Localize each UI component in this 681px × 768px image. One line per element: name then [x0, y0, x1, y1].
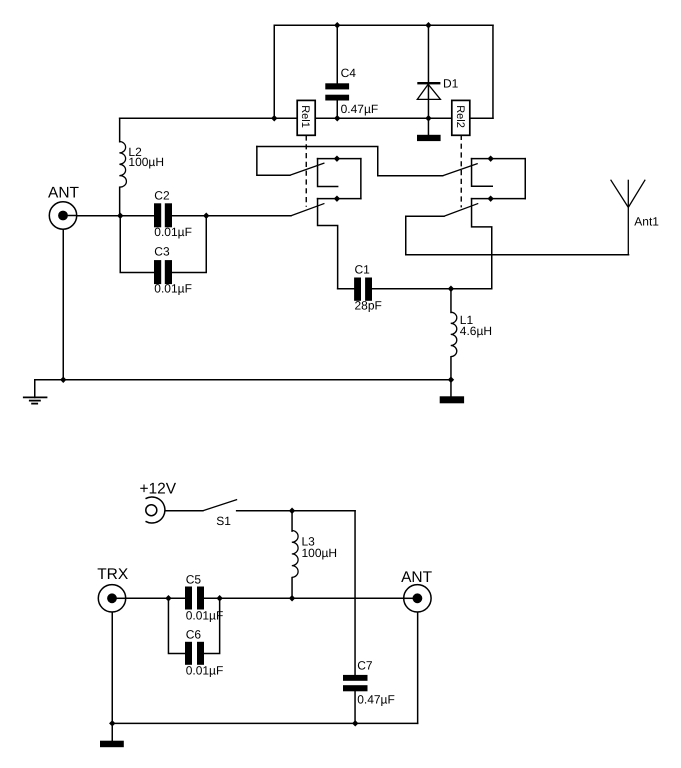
- junction: rail y118 / C4 lead: [334, 115, 340, 121]
- capacitor C1 plates: [354, 278, 372, 301]
- svg-text:0.47µF: 0.47µF: [341, 102, 379, 116]
- wire C5 to ANT connector: [204, 597, 403, 599]
- wire bottom ground rail: [112, 722, 417, 724]
- connector TRX: [98, 585, 126, 612]
- junction: relay2 upper contact: [487, 155, 493, 161]
- wire C4 top lead: [336, 25, 338, 83]
- junction: TRX wire / C6 left branch: [165, 595, 171, 601]
- switch S1 blade: [203, 499, 237, 510]
- wire relay2 contact row upper: [472, 158, 526, 160]
- wire relay2 right contact vertical: [524, 159, 526, 199]
- inductor L1: [451, 312, 457, 356]
- relay1 lower switch arm: [291, 203, 325, 215]
- svg-text:0.01µF: 0.01µF: [186, 664, 224, 678]
- svg-text:0.01µF: 0.01µF: [186, 609, 224, 623]
- svg-text:C7: C7: [357, 658, 373, 672]
- junction: top rail / D1 lead: [425, 22, 431, 28]
- junction: C1 wire / L1 top: [448, 286, 454, 292]
- svg-text:28pF: 28pF: [355, 298, 382, 312]
- svg-text:100µH: 100µH: [302, 546, 338, 560]
- svg-text:+12V: +12V: [140, 481, 177, 498]
- relay Rel2 coil box: [452, 100, 470, 135]
- wire relay1 NC stub: [318, 159, 338, 187]
- diode D1 triangle: [417, 84, 440, 99]
- wire C7 top lead: [354, 511, 356, 675]
- svg-text:D1: D1: [443, 77, 459, 91]
- wire relay1 contact row upper: [318, 158, 361, 160]
- svg-text:TRX: TRX: [97, 566, 129, 583]
- capacitor C3 plates: [154, 260, 172, 284]
- connector +12V: [146, 497, 165, 523]
- relay1 upper switch arm: [290, 163, 325, 175]
- junction: ANT wire / L2 / C3 branch: [117, 213, 123, 219]
- junction: bottom rail / TRX ground: [109, 720, 115, 726]
- relay2 upper switch arm: [443, 163, 478, 175]
- inductor L2: [119, 142, 126, 188]
- svg-text:4.6µH: 4.6µH: [460, 324, 492, 338]
- junction: C2-C3 right node: [203, 213, 209, 219]
- wire C1 right lead to L1 node: [372, 288, 492, 290]
- antenna Ant1: [611, 180, 646, 255]
- svg-text:Rel2: Rel2: [454, 105, 466, 128]
- relay Rel1 coil box: [297, 100, 315, 135]
- wire C3 right branch: [172, 216, 206, 273]
- wire C4 bottom lead: [336, 101, 338, 119]
- connector ANT (bottom): [403, 585, 431, 612]
- junction: TRX wire / C6 right branch: [216, 595, 222, 601]
- wire switch S1 to C7 branch: [237, 510, 355, 512]
- wire relay1 top link to relay2 arm: [257, 146, 443, 175]
- junction: ground rail / L1 bottom: [448, 377, 454, 383]
- capacitor C2 plates: [154, 203, 172, 227]
- svg-text:C2: C2: [154, 189, 170, 203]
- svg-text:0.01µF: 0.01µF: [154, 225, 192, 239]
- wire relay2 contact row lower: [472, 198, 526, 200]
- wire L3 bottom lead: [291, 578, 293, 599]
- wire earth ground lead: [34, 380, 36, 398]
- wire ANT connector down lead: [62, 229, 64, 380]
- wire L1 bottom lead: [450, 357, 452, 380]
- earth ground symbol: [23, 397, 48, 403]
- wire relay2 lower contact to C1 node: [472, 199, 492, 289]
- svg-text:Rel1: Rel1: [299, 105, 311, 128]
- junction: relay2 lower contact: [487, 195, 493, 201]
- svg-text:ANT: ANT: [48, 185, 80, 202]
- wire antenna feed line: [406, 254, 629, 256]
- wire C7 bottom lead: [354, 692, 356, 724]
- relay Rel1 actuation dashed link: [305, 135, 307, 206]
- wire TRX down lead: [111, 612, 113, 741]
- connector ANT (top): [49, 202, 76, 229]
- wire bottom ANT down lead: [417, 613, 419, 724]
- svg-text:S1: S1: [216, 514, 231, 528]
- svg-text:0.01µF: 0.01µF: [154, 282, 192, 296]
- wire TRX to C5: [126, 597, 185, 599]
- capacitor C7 plates: [343, 675, 368, 691]
- relay2 lower switch arm: [444, 203, 478, 216]
- wire right vertical of top loop: [492, 25, 494, 118]
- inductor L3: [292, 531, 298, 578]
- wire L2 top lead: [119, 118, 121, 142]
- wire relay2 NC stub: [472, 159, 493, 187]
- wire L1 ground lead: [450, 380, 452, 397]
- wire +12V to switch: [165, 510, 203, 512]
- wire ANT to C2: [77, 215, 155, 217]
- ground bar under TRX: [100, 741, 124, 748]
- capacitor C4 plates: [325, 83, 349, 100]
- junction: TRX wire / L3 bottom: [289, 595, 295, 601]
- wire C2 to relay1 lower pivot: [172, 215, 291, 217]
- svg-text:C5: C5: [186, 573, 202, 587]
- svg-text:0.47µF: 0.47µF: [357, 693, 395, 707]
- svg-text:C1: C1: [355, 262, 371, 276]
- wire L1 top lead: [450, 289, 452, 313]
- junction: rail y118 / left loop vertical: [271, 115, 277, 121]
- wire relay1 contact row lower: [318, 198, 361, 200]
- svg-text:100µH: 100µH: [128, 155, 164, 169]
- diode D1 cathode bar: [417, 82, 440, 84]
- svg-text:C3: C3: [154, 244, 170, 258]
- junction: bottom rail / C7 lead: [352, 720, 358, 726]
- junction: relay1 upper contact: [334, 155, 340, 161]
- wire ground rail top circuit: [35, 379, 451, 381]
- junction: relay1 lower contact: [334, 195, 340, 201]
- svg-text:C6: C6: [186, 628, 202, 642]
- wire C6 left branch: [168, 598, 185, 653]
- wire D1 vertical lead: [427, 25, 429, 135]
- ground bar under L1: [440, 396, 464, 403]
- junction: rail y118 / D1 lead: [425, 115, 431, 121]
- wire horizontal rail y118: [120, 117, 493, 119]
- wire left vertical of top loop: [273, 25, 275, 118]
- wire relay1 right contact vertical: [360, 159, 362, 199]
- capacitor C5 plates: [185, 587, 204, 610]
- junction: S1 wire / L3 top: [289, 508, 295, 514]
- wire C1 left lead: [338, 288, 355, 290]
- wire relay1 upper pivot branch: [257, 146, 290, 175]
- wire L2 bottom lead: [119, 187, 121, 216]
- wire C3 left branch: [120, 216, 154, 273]
- junction: top rail / C4 lead: [334, 22, 340, 28]
- wire C6 right branch: [204, 598, 219, 653]
- svg-text:Ant1: Ant1: [634, 215, 659, 229]
- capacitor C6 plates: [185, 642, 204, 665]
- ground bar under D1: [417, 135, 441, 141]
- svg-text:ANT: ANT: [401, 569, 433, 586]
- wire top rail: [274, 24, 493, 26]
- wire relay2 lower pivot to antenna line: [406, 216, 444, 255]
- wire L3 top lead: [291, 511, 293, 531]
- wire relay1 lower contact to C1: [318, 199, 338, 289]
- relay Rel2 actuation dashed link: [460, 135, 462, 208]
- svg-text:C4: C4: [341, 66, 357, 80]
- junction: ground rail / ANT lead: [60, 377, 66, 383]
